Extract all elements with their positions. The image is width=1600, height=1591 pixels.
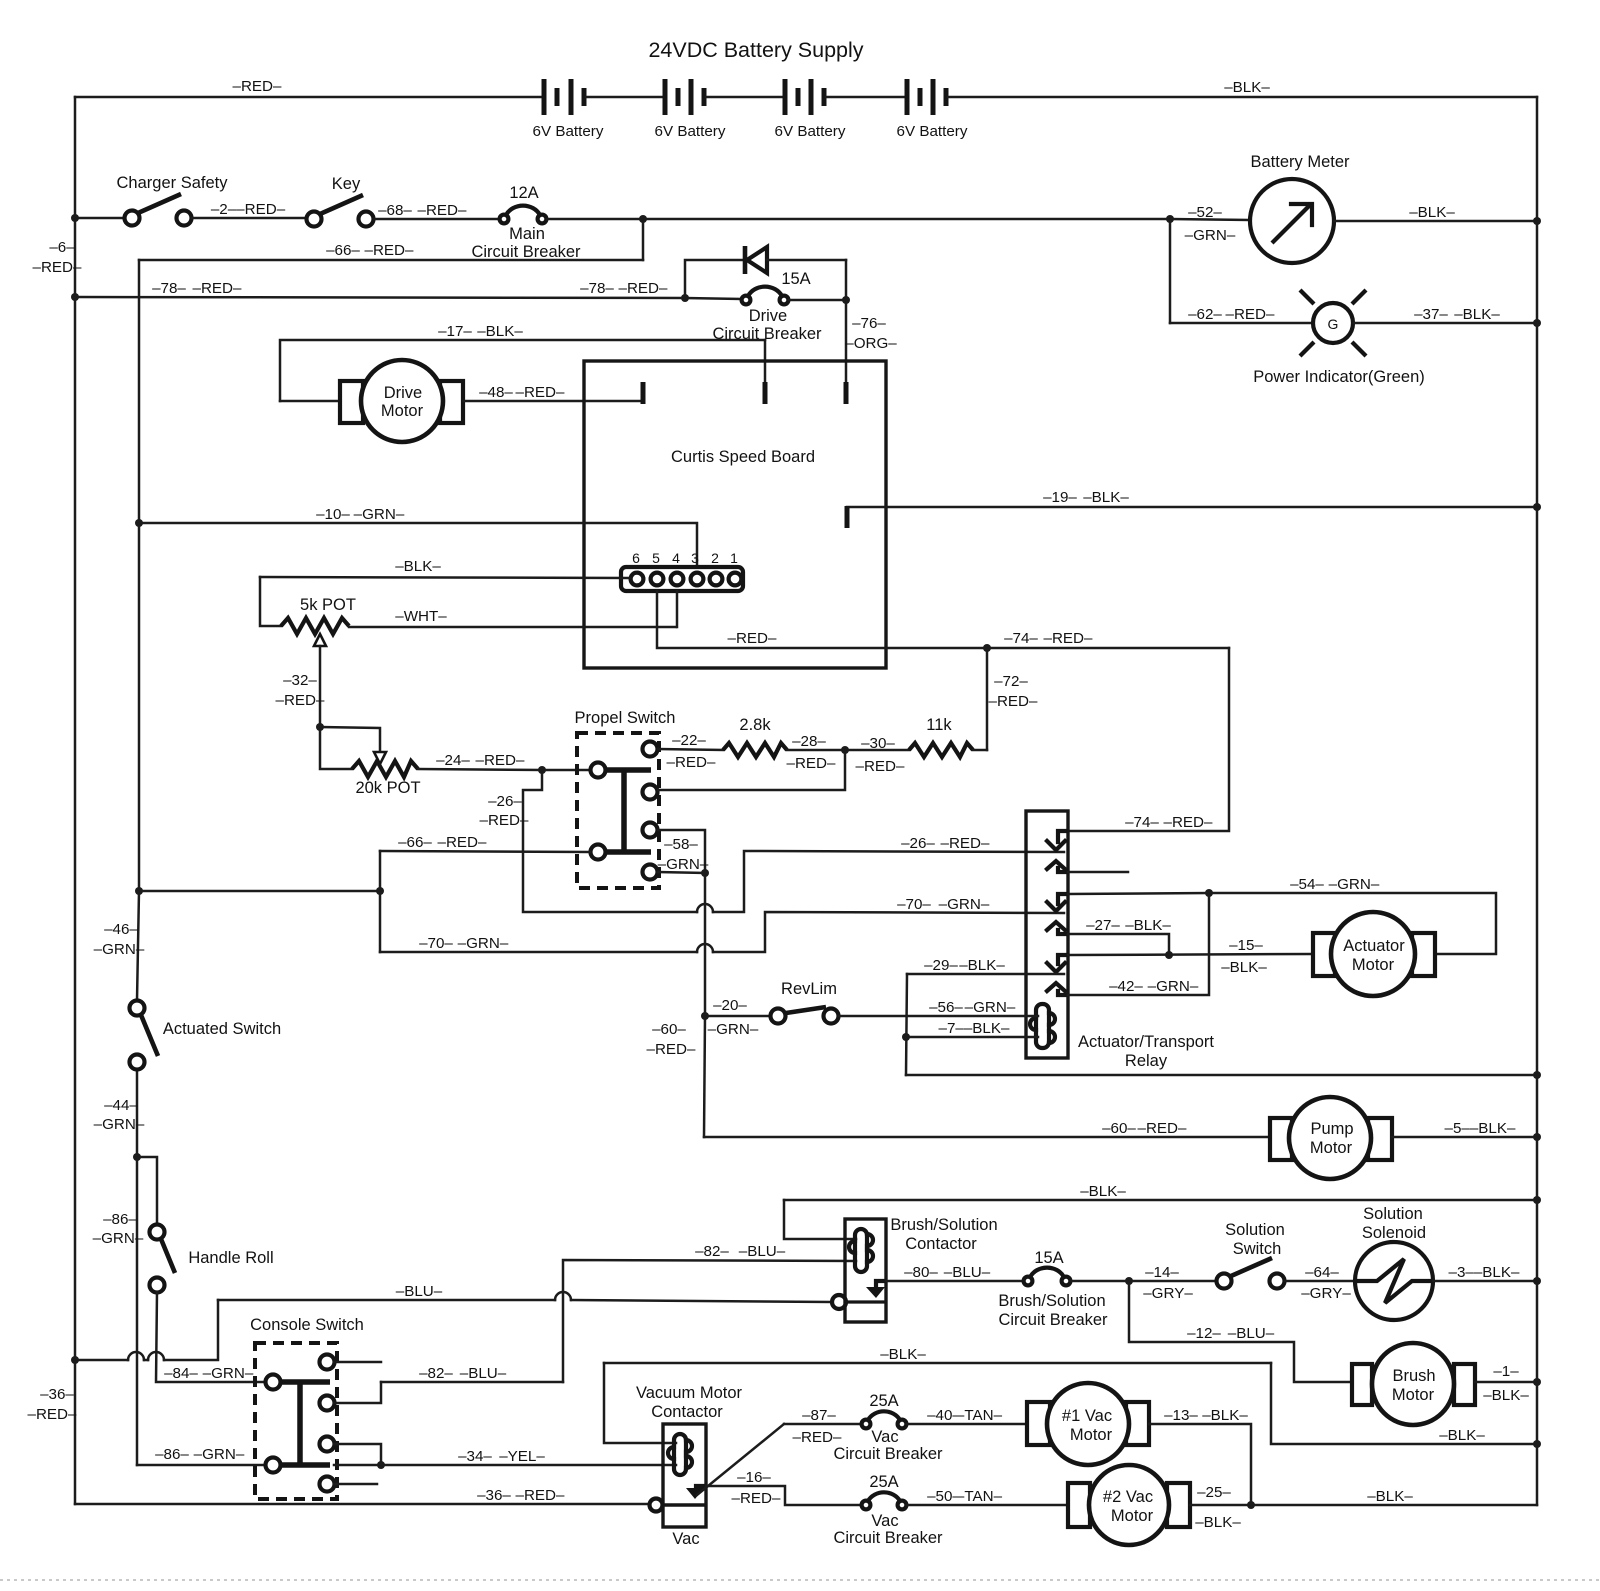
contactor K3 coil: [668, 1434, 692, 1475]
svg-text:#1 Vac: #1 Vac: [1062, 1407, 1112, 1425]
potentiometer R2 20k POT: [320, 727, 542, 797]
svg-text:–52–: –52–: [1188, 204, 1222, 221]
wire drop to -66- row: [642, 219, 645, 260]
terminal bar -17- on Curtis board: [763, 382, 768, 404]
wire BLK right leg to rail: [1271, 1363, 1537, 1444]
contactor K2 contact arrow: [845, 1281, 886, 1302]
junction right rail -19-: [1533, 503, 1541, 511]
wire to 20k wiper: [320, 727, 380, 753]
svg-text:–3––BLK–: –3––BLK–: [1449, 1264, 1520, 1281]
wire -BLK- 5k POT end to pin 6: [260, 577, 630, 578]
junction left rail BLU branch: [71, 1356, 79, 1364]
svg-text:–RED–: –RED–: [480, 812, 530, 829]
svg-text:–GRN–: –GRN–: [94, 1116, 145, 1133]
svg-text:–BLK–: –BLK–: [1224, 79, 1270, 96]
svg-text:–32–: –32–: [283, 672, 317, 689]
relay K1 contact 2 (pins -54-/-27-): [1047, 894, 1066, 934]
svg-text:–GRN–: –GRN–: [1329, 876, 1380, 893]
svg-text:–BLK–: –BLK–: [1483, 1387, 1529, 1404]
svg-text:–RED–: –RED–: [233, 78, 283, 95]
circuit breaker CB1 12A Main: [471, 184, 581, 261]
wire -20- GRN to RevLim: [705, 1015, 770, 1018]
svg-text:–BLU–: –BLU–: [944, 1264, 991, 1281]
svg-text:Switch: Switch: [1233, 1240, 1282, 1258]
svg-text:–ORG–: –ORG–: [845, 335, 897, 352]
wire -56- GRN RevLim to relay coil: [839, 1015, 1038, 1018]
svg-text:Power Indicator(Green): Power Indicator(Green): [1253, 368, 1425, 386]
circuit breaker CB3 15A Brush/Solution: [998, 1249, 1108, 1329]
svg-text:–RED–: –RED–: [787, 755, 837, 772]
wire -1- BLK brush motor to right rail: [1475, 1381, 1537, 1384]
svg-text:Brush/Solution: Brush/Solution: [998, 1292, 1105, 1310]
svg-text:Actuator/Transport: Actuator/Transport: [1078, 1033, 1214, 1051]
wire -54- GRN relay to actuator motor right: [1068, 893, 1209, 894]
svg-text:–17–: –17–: [438, 323, 472, 340]
svg-text:–64–: –64–: [1305, 1264, 1339, 1281]
svg-text:–GRN–: –GRN–: [1148, 978, 1199, 995]
contactor K2 input circle: [832, 1295, 846, 1309]
svg-text:–25–: –25–: [1197, 1484, 1231, 1501]
wire BLU branch rail to riser (hops rail2 and -84- riser): [75, 1359, 128, 1362]
svg-text:Solenoid: Solenoid: [1362, 1224, 1426, 1242]
circuit breaker CB5 25A Vac (bottom): [833, 1473, 943, 1547]
svg-text:–GRY–: –GRY–: [1301, 1285, 1351, 1302]
svg-text:–BLK–: –BLK–: [1080, 1183, 1126, 1200]
circuit breaker CB4 25A Vac (top): [833, 1392, 943, 1463]
svg-text:3: 3: [691, 550, 699, 566]
contactor K2 Brush/Solution Contactor: [845, 1216, 998, 1322]
svg-text:–BLK–: –BLK–: [1083, 489, 1129, 506]
svg-text:Solution: Solution: [1225, 1221, 1285, 1239]
svg-text:Console Switch: Console Switch: [250, 1316, 364, 1334]
svg-text:Drive: Drive: [749, 307, 788, 325]
wire -5- BLK pump motor to right rail: [1392, 1136, 1537, 1139]
junction right rail brush BLK: [1533, 1196, 1541, 1204]
svg-text:Circuit Breaker: Circuit Breaker: [833, 1445, 943, 1463]
switch S5 Actuated Switch (in rail2): [130, 1001, 282, 1070]
wire battery B1 to B2: [586, 96, 664, 99]
svg-text:–BLK–: –BLK–: [1409, 204, 1455, 221]
wire junction to Battery Meter: [1170, 219, 1249, 220]
contactor K3 Vacuum Motor Contactor: [636, 1384, 743, 1548]
wire BLK drop to contactor coil: [784, 1200, 856, 1239]
svg-text:–62–: –62–: [1188, 306, 1222, 323]
svg-text:–36–: –36–: [477, 1487, 511, 1504]
diode D1: [745, 246, 846, 274]
svg-text:Brush/Solution: Brush/Solution: [890, 1216, 997, 1234]
wire -10- GRN rail2 to Curtis pin 3: [139, 523, 697, 567]
wire -15- BLK relay to actuator motor left: [1068, 954, 1313, 955]
svg-text:11k: 11k: [926, 716, 952, 734]
wire -48- RED drive motor to Curtis board: [463, 400, 643, 403]
potentiometer R1 5k POT: [260, 577, 676, 727]
svg-text:–19–: –19–: [1043, 489, 1077, 506]
switch S2 Key: [307, 175, 374, 227]
wire diode branch riser: [685, 260, 742, 298]
wire -29- BLK into relay: [907, 973, 1064, 976]
svg-text:–BLK–: –BLK–: [1454, 306, 1500, 323]
svg-text:12A: 12A: [509, 184, 538, 202]
wire -58- GRN propel contact 3 loop: [658, 830, 705, 873]
svg-text:–BLK–: –BLK–: [1439, 1427, 1485, 1444]
junction -27-/-15-: [1165, 951, 1173, 959]
wire -78- RED left rail to drive breaker junction: [75, 297, 685, 298]
svg-text:–29–: –29–: [924, 957, 958, 974]
switch S1 Charger Safety: [117, 174, 229, 226]
junction right rail pump: [1533, 1133, 1541, 1141]
svg-text:Drive: Drive: [384, 384, 423, 402]
junction -28-/-30- branch: [841, 746, 849, 754]
relay K1 contact 3 (pins -15-/-42-): [1047, 955, 1066, 995]
motor M2 Drive Motor: [340, 360, 463, 442]
svg-text:–BLK–: –BLK–: [959, 957, 1005, 974]
wire -72- RED riser: [986, 648, 989, 750]
svg-text:–22–: –22–: [672, 732, 706, 749]
junction -58- contact 4: [701, 869, 709, 877]
svg-text:Vacuum Motor: Vacuum Motor: [636, 1384, 743, 1402]
wire pin4 drop to WHT: [676, 591, 679, 627]
svg-text:6V Battery: 6V Battery: [775, 123, 846, 140]
battery B1 6V: [533, 79, 604, 140]
wire -68- RED Key to Main Circuit Breaker: [374, 218, 499, 221]
svg-text:Motor: Motor: [1070, 1426, 1113, 1444]
svg-text:–GRN–: –GRN–: [1185, 227, 1236, 244]
svg-text:Circuit Breaker: Circuit Breaker: [998, 1311, 1108, 1329]
wire rail2 to -66-/-70- tee: [139, 890, 380, 893]
junction -78- / drive breaker branch: [681, 294, 689, 302]
svg-text:–68–: –68–: [378, 202, 412, 219]
wire -86- GRN rail2 to console pole 2: [137, 1464, 266, 1467]
svg-text:Main: Main: [509, 225, 545, 243]
wire -37- BLK indicator to right rail: [1354, 322, 1537, 325]
svg-text:–13–: –13–: [1164, 1407, 1198, 1424]
svg-text:–56–: –56–: [929, 999, 963, 1016]
connector J1 Curtis pin strip: [621, 550, 743, 591]
svg-text:–RED–: –RED–: [941, 835, 991, 852]
svg-text:–70–: –70–: [419, 935, 453, 952]
svg-text:Relay: Relay: [1125, 1052, 1168, 1070]
wire -60- RED to pump motor: [704, 1136, 1270, 1139]
svg-text:20k POT: 20k POT: [355, 779, 420, 797]
svg-text:–RED–: –RED–: [1226, 306, 1276, 323]
svg-text:–WHT–: –WHT–: [395, 608, 447, 625]
svg-text:24VDC Battery Supply: 24VDC Battery Supply: [648, 38, 863, 62]
svg-text:–28–: –28–: [792, 733, 826, 750]
wire -14- GRY breaker to solution switch: [1071, 1280, 1216, 1283]
svg-text:–7––BLK–: –7––BLK–: [939, 1020, 1010, 1037]
wire -12- BLU breaker junction to brush motor: [1129, 1281, 1352, 1382]
wire -58-/-20- vertical down to RevLim: [704, 873, 707, 1016]
box U1 Curtis Speed Board: [584, 361, 886, 668]
svg-text:–RED–: –RED–: [516, 384, 566, 401]
wire Battery Meter to right rail BLK: [1334, 220, 1537, 223]
svg-text:–10–: –10–: [316, 506, 350, 523]
resistor R3 2.8k: [723, 716, 787, 757]
svg-text:5: 5: [652, 550, 660, 566]
svg-text:–BLK–: –BLK–: [477, 323, 523, 340]
svg-text:5k POT: 5k POT: [300, 596, 356, 614]
wire -BLU- run to brush/solution contactor coil: [218, 1299, 555, 1302]
junction node at x=643: [639, 215, 647, 223]
svg-text:–14–: –14–: [1145, 1264, 1179, 1281]
wire branch to Handle Roll: [137, 1157, 157, 1225]
svg-text:–RED–: –RED–: [1044, 630, 1094, 647]
svg-text:–RED–: –RED–: [732, 1490, 782, 1507]
svg-text:–BLK–: –BLK–: [1195, 1514, 1241, 1531]
battery B4 6V: [897, 79, 968, 140]
svg-text:–87–: –87–: [802, 1407, 836, 1424]
svg-text:–BLU–: –BLU–: [1228, 1325, 1275, 1342]
svg-text:–BLU–: –BLU–: [739, 1243, 786, 1260]
svg-text:–58–: –58–: [664, 836, 698, 853]
svg-text:–TAN–: –TAN–: [956, 1407, 1003, 1424]
junction 5k wiper / 20k: [316, 723, 324, 731]
wire rail2 lower segment: [136, 1070, 139, 1465]
svg-text:–5––BLK–: –5––BLK–: [1445, 1120, 1516, 1137]
svg-text:–74–: –74–: [1125, 814, 1159, 831]
meter M1 Battery Meter: [1250, 153, 1350, 263]
wire tee up to -66-: [379, 851, 382, 891]
svg-text:–78–: –78–: [580, 280, 614, 297]
junction diode/breaker output: [842, 296, 850, 304]
wire -28- RED: [787, 749, 909, 752]
svg-text:–BLK–: –BLK–: [1125, 917, 1171, 934]
junction -24- propel feed: [538, 766, 546, 774]
contactor K3 contact arrow: [686, 1486, 704, 1499]
svg-text:–12–: –12–: [1187, 1325, 1221, 1342]
wire 11k to -72- riser: [973, 749, 987, 752]
wire -7- BLK to relay coil: [906, 1036, 1038, 1039]
svg-text:–54–: –54–: [1290, 876, 1324, 893]
wire -27- BLK relay to -15- tee: [1068, 934, 1169, 955]
svg-text:–RED–: –RED–: [989, 693, 1039, 710]
svg-text:15A: 15A: [781, 270, 810, 288]
solenoid L1 Solution Solenoid: [1355, 1205, 1433, 1320]
svg-text:6V Battery: 6V Battery: [655, 123, 726, 140]
wire -24- junction to propel pole 1: [542, 769, 590, 772]
wire left rail to Charger Safety: [75, 217, 124, 220]
svg-text:–BLK–: –BLK–: [1221, 959, 1267, 976]
svg-text:–86–: –86–: [103, 1211, 137, 1228]
svg-text:Brush: Brush: [1392, 1367, 1435, 1385]
svg-text:–GRN–: –GRN–: [708, 1021, 759, 1038]
svg-text:–GRN–: –GRN–: [965, 999, 1016, 1016]
wire -50- TAN breaker to #2 vac motor: [907, 1504, 1068, 1507]
motor M3 Actuator Motor: [1313, 912, 1435, 996]
wire -17- BLK drive motor to Curtis board: [280, 340, 765, 401]
svg-text:–RED–: –RED–: [418, 202, 468, 219]
wire drive motor left lead: [280, 400, 338, 403]
svg-text:Vac: Vac: [672, 1530, 699, 1548]
svg-text:Charger Safety: Charger Safety: [117, 174, 229, 192]
wire BLK drop on left of vac contactor: [604, 1363, 676, 1443]
wire console contact 3 to -34- run: [334, 1444, 381, 1465]
wire rail 2 (GRN bus from key circuit): [137, 260, 139, 1000]
wire BLK relay return to right rail: [906, 1074, 1537, 1077]
svg-text:2: 2: [711, 550, 719, 566]
wire -66- RED to propel pole 2: [380, 851, 590, 852]
svg-text:–GRN–: –GRN–: [93, 1230, 144, 1247]
terminal bar -19- on Curtis board: [845, 506, 850, 528]
junction right rail solenoid: [1533, 1277, 1541, 1285]
motor M4 Pump Motor: [1270, 1097, 1392, 1179]
svg-text:–34–: –34–: [458, 1448, 492, 1465]
junction rail2 -10- branch: [135, 519, 143, 527]
svg-text:Handle Roll: Handle Roll: [188, 1249, 273, 1267]
junction -74-/-72-: [983, 644, 991, 652]
junction right rail meter: [1533, 217, 1541, 225]
svg-text:–GRN–: –GRN–: [203, 1365, 254, 1382]
svg-text:–GRN–: –GRN–: [94, 941, 145, 958]
contactor K3 input circle: [650, 1499, 663, 1512]
svg-text:–16–: –16–: [737, 1469, 771, 1486]
wire console contact 4 stub: [334, 1483, 377, 1486]
motor M6 #1 Vac Motor: [1027, 1383, 1149, 1465]
svg-text:6V Battery: 6V Battery: [897, 123, 968, 140]
motor M7 #2 Vac Motor: [1068, 1465, 1190, 1545]
svg-text:–2––RED–: –2––RED–: [211, 201, 286, 218]
svg-text:Circuit Breaker: Circuit Breaker: [833, 1529, 943, 1547]
junction -7- tee: [902, 1033, 910, 1041]
svg-text:–RED–: –RED–: [438, 834, 488, 851]
svg-text:–60–: –60–: [652, 1021, 686, 1038]
svg-text:–76–: –76–: [852, 315, 886, 332]
svg-text:–GRY–: –GRY–: [1143, 1285, 1193, 1302]
wire -40- TAN breaker to #1 vac motor: [907, 1423, 1027, 1426]
wire tee down to -70-: [379, 891, 382, 952]
svg-text:Actuated Switch: Actuated Switch: [163, 1020, 281, 1038]
wire -19- BLK Curtis board to right rail: [847, 506, 1537, 509]
svg-text:–26–: –26–: [901, 835, 935, 852]
svg-text:–GRN–: –GRN–: [354, 506, 405, 523]
svg-text:Curtis Speed Board: Curtis Speed Board: [671, 448, 815, 466]
junction left rail -78- row: [71, 293, 79, 301]
wire -60- RED down to pump motor row: [704, 1016, 705, 1137]
svg-text:–6–: –6–: [49, 239, 75, 256]
svg-text:–74–: –74–: [1004, 630, 1038, 647]
lamp DS1 Power Indicator (Green): [1253, 290, 1425, 386]
switch S4 RevLim: [771, 980, 839, 1024]
contactor K2 coil: [849, 1229, 873, 1272]
junction -13-/-25-: [1247, 1501, 1255, 1509]
svg-text:–BLK–: –BLK–: [880, 1346, 926, 1363]
svg-text:–RED–: –RED–: [728, 630, 778, 647]
svg-text:–42–: –42–: [1109, 978, 1143, 995]
wire top battery return BLK (battery B4 to right rail): [948, 96, 1537, 99]
svg-text:–RED–: –RED–: [619, 280, 669, 297]
svg-text:–BLU–: –BLU–: [460, 1365, 507, 1382]
svg-text:Contactor: Contactor: [651, 1403, 723, 1421]
wire -74- RED down leg to relay: [1068, 648, 1229, 831]
junction rail2 handle roll branch: [133, 1153, 141, 1161]
svg-text:–86–: –86–: [155, 1446, 189, 1463]
wire -66- RED to rail 2: [139, 259, 643, 262]
svg-text:Contactor: Contactor: [905, 1235, 977, 1253]
svg-text:1: 1: [730, 550, 738, 566]
wire BLK brush contactor coil feed from right rail bus: [784, 1199, 1537, 1202]
junction rail2 -46- branch: [135, 887, 143, 895]
svg-text:G: G: [1328, 316, 1339, 332]
svg-text:6: 6: [632, 550, 640, 566]
junction -20- RevLim branch: [701, 1012, 709, 1020]
wire top battery feed RED (left rail to battery B1): [75, 96, 543, 99]
junction right rail vac BLK: [1533, 1440, 1541, 1448]
svg-text:–66–: –66–: [326, 242, 360, 259]
svg-text:–15–: –15–: [1229, 937, 1263, 954]
svg-text:–80–: –80–: [904, 1264, 938, 1281]
svg-text:Motor: Motor: [1111, 1507, 1154, 1525]
wire -29- left riser down to BLK return: [906, 974, 907, 1075]
wire pin5 drop to -74- RED row: [657, 591, 1229, 648]
switch S3 Propel Switch: [575, 709, 676, 888]
svg-text:–GRN–: –GRN–: [939, 896, 990, 913]
relay K1 contact 1 (pins -74-/-26-): [1047, 831, 1066, 872]
svg-text:–30–: –30–: [861, 735, 895, 752]
wire -64- GRY switch to solenoid: [1285, 1280, 1355, 1283]
svg-text:Vac: Vac: [871, 1428, 898, 1446]
wire -87- diagonal from contact to vac breaker 1: [697, 1424, 784, 1495]
svg-text:–84–: –84–: [164, 1365, 198, 1382]
svg-text:–BLK–: –BLK–: [1202, 1407, 1248, 1424]
wire -87- RED to vac breaker 1: [784, 1423, 861, 1426]
svg-text:–46–: –46–: [104, 921, 138, 938]
svg-text:–RED–: –RED–: [856, 758, 906, 775]
junction -12- branch: [1125, 1277, 1133, 1285]
wire console contact 1 stub: [334, 1361, 381, 1364]
svg-text:–37–: –37–: [1414, 306, 1448, 323]
wire BLK vac contactor coil feed: [604, 1362, 1271, 1365]
wire meter junction down to indicator row: [1169, 219, 1172, 323]
battery B3 6V: [775, 79, 846, 140]
motor M5 Brush Motor: [1352, 1343, 1475, 1425]
page edge dotted line: [0, 1579, 1600, 1581]
wire -13- BLK #1 vac motor down to junction: [1149, 1424, 1251, 1504]
junction battery meter branch: [1166, 215, 1174, 223]
wire -36- RED left rail to vac contactor: [75, 1503, 650, 1506]
svg-text:Actuator: Actuator: [1343, 937, 1405, 955]
wire -25- #2 vac motor to junction: [1190, 1504, 1251, 1507]
junction right rail relay return: [1533, 1071, 1541, 1079]
circuit breaker CB2 15A Drive: [685, 270, 846, 343]
wire left rail (positive RED bus): [74, 97, 77, 1504]
svg-text:–70–: –70–: [897, 896, 931, 913]
wire -80- BLU contactor to brush breaker: [886, 1280, 1023, 1283]
wire console contact 2 to -82- run: [334, 1382, 381, 1403]
svg-text:Circuit Breaker: Circuit Breaker: [471, 243, 581, 261]
svg-text:6V Battery: 6V Battery: [533, 123, 604, 140]
wire -62- RED to Power Indicator: [1170, 322, 1312, 325]
svg-text:–TAN–: –TAN–: [956, 1488, 1003, 1505]
svg-text:–RED–: –RED–: [516, 1487, 566, 1504]
svg-text:–36–: –36–: [40, 1386, 74, 1403]
terminal bar -76- on Curtis board: [844, 382, 849, 404]
wire -26- RED stepped run to relay: [523, 770, 697, 912]
terminal bar -48- on Curtis board: [641, 382, 646, 404]
junction right rail brush motor: [1533, 1378, 1541, 1386]
svg-text:–72–: –72–: [994, 673, 1028, 690]
svg-text:–RED–: –RED–: [1164, 814, 1214, 831]
svg-text:–YEL–: –YEL–: [499, 1448, 545, 1465]
wire battery B3 to B4: [826, 96, 906, 99]
svg-text:Motor: Motor: [1310, 1139, 1353, 1157]
svg-text:–82–: –82–: [695, 1243, 729, 1260]
svg-text:–BLK–: –BLK–: [395, 558, 441, 575]
svg-text:–GRN–: –GRN–: [458, 935, 509, 952]
wire -82- BLU riser up and right to contactor: [563, 1260, 856, 1382]
switch S8 Solution Switch: [1217, 1221, 1285, 1289]
wire battery B2 to B3: [706, 96, 784, 99]
svg-text:–RED–: –RED–: [476, 752, 526, 769]
